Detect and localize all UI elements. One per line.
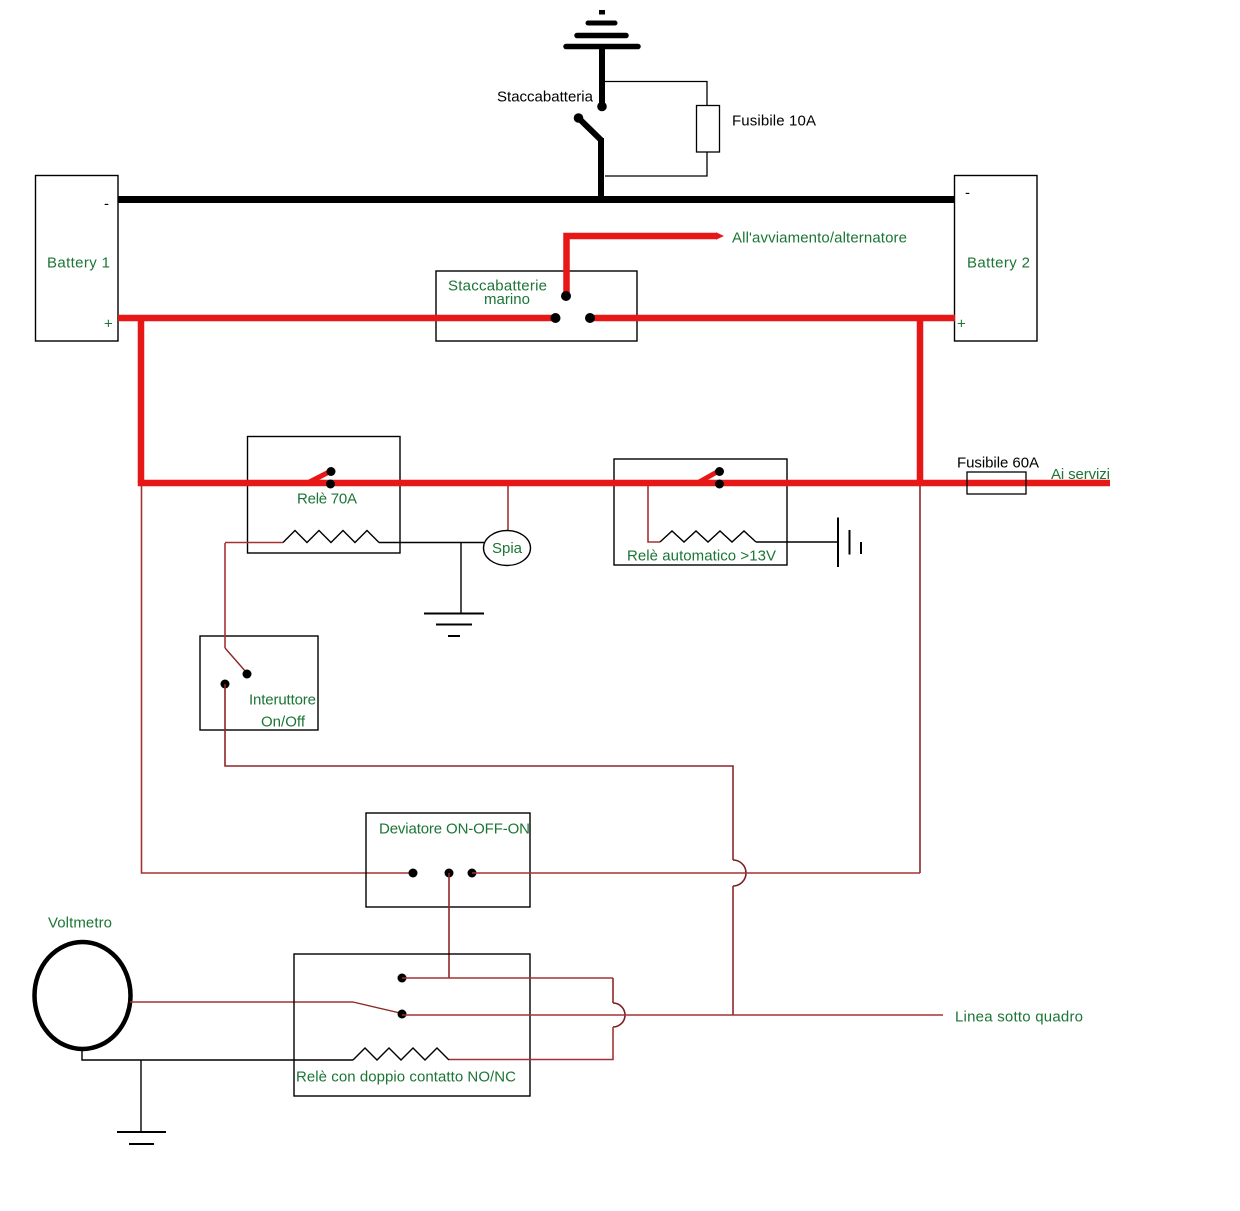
staccabatteria switch blade xyxy=(579,118,602,140)
svg-text:+: + xyxy=(104,316,113,333)
ground symbol spia xyxy=(424,614,484,637)
node K3 common xyxy=(398,1010,407,1019)
battery B2 box xyxy=(955,176,1038,342)
wire from earth to switch xyxy=(599,49,605,104)
relay K2 blade xyxy=(697,473,717,484)
svg-text:Linea sotto quadro: Linea sotto quadro xyxy=(955,1009,1083,1026)
wire into interruttore xyxy=(224,543,226,648)
positive bus wire B2 side xyxy=(589,315,955,322)
relay K1 blade xyxy=(307,473,329,484)
relay K3 NO/NC box xyxy=(294,954,530,1096)
wire right side down upper part xyxy=(612,978,614,1003)
node K1 lower contact xyxy=(326,480,335,489)
interruttore blade xyxy=(225,648,246,672)
node K2 upper contact xyxy=(715,467,724,476)
svg-text:Relè con doppio contatto NO/NC: Relè con doppio contatto NO/NC xyxy=(296,1069,516,1086)
node K2 lower contact xyxy=(715,480,724,489)
svg-text:marino: marino xyxy=(484,291,530,308)
svg-text:Ai servizi: Ai servizi xyxy=(1051,466,1110,483)
node interruttore contact xyxy=(243,670,252,679)
wire B2 services drop thin red xyxy=(919,486,921,873)
wire B1 deviatore drop thin red xyxy=(142,486,414,873)
node K3 NO contact xyxy=(398,974,407,983)
node K1 upper contact xyxy=(327,467,336,476)
coil K2 zigzag xyxy=(660,531,756,542)
wire deviatore center down to relay K3 xyxy=(448,873,450,978)
svg-text:-: - xyxy=(104,196,109,213)
node marino common xyxy=(561,291,571,301)
wire ground drop voltmeter xyxy=(140,1060,142,1132)
wire B1 branch down thick red xyxy=(138,315,145,483)
wire deviatore right to B2 drop xyxy=(472,872,920,874)
svg-text:Relè 70A: Relè 70A xyxy=(297,491,357,508)
ground symbol voltmeter xyxy=(117,1132,166,1144)
coil K1 zigzag xyxy=(283,531,379,543)
relay K1 70A box xyxy=(248,437,401,554)
interruttore box xyxy=(200,636,318,730)
battery B1 box xyxy=(36,176,119,342)
node interruttore pole xyxy=(221,680,230,689)
fusibile F2 60A body xyxy=(967,472,1026,494)
node marino contact 2 xyxy=(585,313,595,323)
relay K2 automatico box xyxy=(614,459,787,565)
staccabatterie marino box xyxy=(436,271,637,341)
earth ground symbol top xyxy=(566,10,638,47)
wire K1 coil left lead red xyxy=(225,542,283,544)
all'avviamento feed wire thick red xyxy=(567,236,717,294)
wire hop over linea sotto quadro xyxy=(613,1003,625,1027)
node deviatore right xyxy=(468,869,477,878)
wire linea sotto quadro xyxy=(402,1014,943,1016)
wire ground drop spia xyxy=(460,543,462,614)
wire K2 coil feed red xyxy=(648,486,660,542)
wire voltmeter bottom to coil xyxy=(82,1049,353,1060)
wire hop over deviatore line xyxy=(733,860,746,886)
svg-text:Fusibile 60A: Fusibile 60A xyxy=(957,455,1039,472)
node deviatore center xyxy=(445,869,454,878)
services bus wire thick red xyxy=(138,480,1110,487)
positive bus wire B1 side xyxy=(118,315,556,322)
node marino contact 1 xyxy=(551,313,561,323)
wire K2 coil right lead xyxy=(756,541,838,543)
lamp spia xyxy=(484,531,531,566)
wire hop to linea sotto quadro xyxy=(732,886,734,1015)
svg-text:On/Off: On/Off xyxy=(261,714,306,731)
svg-text:Fusibile 10A: Fusibile 10A xyxy=(732,113,816,130)
svg-text:Battery 2: Battery 2 xyxy=(967,255,1030,272)
negative bus wire black xyxy=(118,196,955,203)
svg-text:Relè automatico >13V: Relè automatico >13V xyxy=(627,548,776,565)
svg-text:Battery 1: Battery 1 xyxy=(47,255,110,272)
wire fuse loop bottom xyxy=(605,152,707,176)
fusibile 10A body xyxy=(697,106,720,153)
svg-text:Deviatore ON-OFF-ON: Deviatore ON-OFF-ON xyxy=(379,821,530,838)
wire right side down lower part xyxy=(449,1027,613,1060)
deviatore box xyxy=(366,813,530,907)
node switch top contact xyxy=(597,102,607,112)
svg-text:Spia: Spia xyxy=(492,540,523,557)
svg-text:Staccabatteria: Staccabatteria xyxy=(497,89,594,106)
wire spia feed red thin xyxy=(507,486,509,531)
svg-text:Interuttore: Interuttore xyxy=(249,692,316,709)
node switch pivot xyxy=(574,113,584,123)
node deviatore left xyxy=(409,869,418,878)
voltmeter body xyxy=(35,942,131,1049)
svg-text:+: + xyxy=(957,316,966,333)
wire K3 NO to right side xyxy=(402,977,613,979)
relay K3 blade xyxy=(353,1002,400,1013)
wire voltmeter to K3 common xyxy=(130,1001,353,1003)
svg-text:All'avviamento/alternatore: All'avviamento/alternatore xyxy=(732,230,907,247)
wire K1 coil right lead to spia xyxy=(379,542,484,544)
svg-text:-: - xyxy=(965,185,970,202)
wire switch to negative bus xyxy=(598,138,604,199)
wire B2 branch down thick red xyxy=(917,315,924,483)
wire fuse loop top xyxy=(605,82,707,107)
svg-text:Voltmetro: Voltmetro xyxy=(48,915,112,932)
coil K3 zigzag xyxy=(353,1048,449,1060)
ground symbol sideways xyxy=(838,518,861,568)
wire interruttore to hop xyxy=(225,684,733,860)
